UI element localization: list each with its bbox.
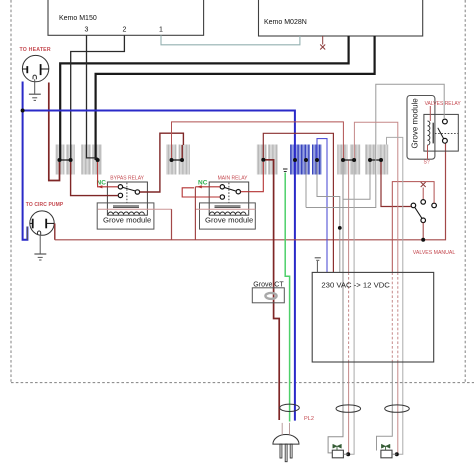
wire Kemo M028N out B (black) to terminal block TB2	[96, 36, 375, 160]
svg-text:Kemo M028N: Kemo M028N	[264, 19, 307, 26]
wire TB4 dot to Grove CT and plug (maroon)	[263, 160, 279, 420]
svg-text:Grove module: Grove module	[205, 215, 253, 224]
svg-text:1: 1	[159, 27, 163, 34]
bypass relay K1 box	[107, 182, 147, 215]
svg-text:NC: NC	[198, 180, 208, 187]
neutral blue wire: heater down, junction, across to blue terminal block	[23, 82, 295, 421]
thin blue link TB5 to 230VAC box	[317, 139, 327, 273]
main coil feed wire (pink)	[195, 208, 255, 210]
svg-text:TO CIRC PUMP: TO CIRC PUMP	[26, 202, 64, 208]
valves relay coil bottom wire + S? label	[424, 145, 430, 166]
gray wire TB5 to 230VAC box input 1	[305, 162, 307, 208]
svg-text:PL2: PL2	[304, 416, 314, 422]
wire TB6 junction to valve 1 solenoid (pink, dashed in PSU box)	[348, 161, 350, 455]
NC arrow main	[197, 185, 202, 188]
main relay K2 box	[209, 182, 249, 215]
svg-text:3: 3	[85, 27, 89, 34]
heater connector ground	[29, 79, 41, 100]
terminal block TB3	[166, 145, 190, 175]
valves relay contacts	[435, 119, 458, 143]
wire bypass coil to live bus	[171, 209, 173, 240]
wire TB2 dot to bypass relay NC contact	[98, 162, 118, 187]
valves grove module box (rounded)	[407, 96, 435, 160]
PSU ground	[315, 258, 321, 273]
wire TB1 right dot to bypass relay lower contact	[71, 162, 118, 196]
valves relay K3 box	[424, 114, 458, 151]
dashed enclosure border left	[10, 0, 12, 383]
Kemo M028N box	[259, 0, 423, 36]
wire valves manual right contact to valve 2 (red)	[377, 182, 435, 451]
wire Kemo M150 pin1 to Kemo M028N (teal)	[161, 35, 300, 45]
svg-text:Grove CT: Grove CT	[253, 281, 284, 288]
svg-text:VALVES RELAY: VALVES RELAY	[425, 101, 462, 107]
terminal block junction dots	[58, 158, 384, 162]
bypass grove module box	[97, 203, 154, 229]
230VAC-12VDC power supply box	[312, 272, 434, 362]
mains plug PL2	[273, 423, 299, 462]
wire TB4 dot to 230VAC box input (maroon)	[263, 133, 333, 272]
circ pump connector J2	[27, 211, 54, 240]
junction dot neutral	[21, 109, 25, 113]
wire bypass relay common to TB3 right	[140, 133, 184, 192]
green-yellow wire TB5 to plug	[283, 169, 290, 422]
NC arrow bypass	[97, 185, 102, 188]
gray wire TB5 to junction and box 2	[317, 162, 342, 272]
bypass relay coil	[108, 206, 144, 215]
dashed enclosure border right	[464, 0, 466, 383]
wire Kemo M150 pin 2 to terminal block TB1	[71, 35, 125, 160]
valve 2 solenoid	[381, 444, 399, 458]
heater connector J1	[22, 55, 48, 81]
heater hot wire (dark red) down to U-link	[49, 83, 60, 181]
gray wire TB7 left L-link	[343, 162, 370, 199]
svg-text:230 VAC -> 12 VDC: 230 VAC -> 12 VDC	[321, 280, 390, 289]
wire valves manual common to live bus	[421, 223, 425, 242]
wire TB7 right dot to valves manual left contact (maroon)	[381, 162, 411, 207]
gray wire TB6 right down to valve 1 dot	[350, 162, 354, 454]
wire TB3 left to TB6 left (red)	[172, 122, 344, 158]
svg-text:VALVES MANUAL: VALVES MANUAL	[413, 250, 456, 256]
svg-text:TO HEATER: TO HEATER	[20, 47, 51, 53]
svg-text:BYPAS RELAY: BYPAS RELAY	[110, 176, 144, 182]
cable ellipse valve 2	[385, 405, 410, 412]
svg-text:S?: S?	[424, 160, 430, 166]
red X above valves manual	[421, 182, 426, 200]
wire main relay lower contact loop	[182, 188, 220, 197]
gray wire valves relay top contact to TB7 gap	[306, 84, 444, 207]
terminal block TB7	[365, 145, 388, 175]
main relay contacts	[220, 183, 240, 203]
bypass coil feed wire (pink)	[98, 208, 172, 210]
gray wire TB6 left down to valve 1	[328, 162, 343, 453]
terminal block TB1	[56, 145, 75, 175]
svg-text:MAIN RELAY: MAIN RELAY	[218, 176, 249, 182]
unconnected pin X under Kemo M028N	[320, 36, 325, 50]
terminal block TB2	[81, 145, 102, 175]
wire Kemo M028N out A (black) to terminal block TB1	[60, 36, 348, 160]
main grove module box	[200, 203, 256, 229]
230V live bus wire (red) pump to valves relay	[55, 144, 446, 240]
terminal block TB4	[257, 145, 278, 175]
Grove CT box	[252, 281, 284, 303]
svg-text:2: 2	[123, 27, 127, 34]
valves relay coil (vertical)	[428, 121, 434, 145]
dashed enclosure border bottom	[11, 382, 474, 384]
main relay coil	[210, 206, 246, 215]
valve 1 solenoid	[332, 444, 350, 458]
svg-text:Kemo M150: Kemo M150	[59, 15, 97, 22]
bypass relay contacts	[118, 183, 139, 203]
Kemo M150 box	[48, 0, 204, 35]
svg-text:Grove module: Grove module	[411, 98, 420, 149]
gray wire TB7 stub to valve 2 right	[387, 137, 403, 454]
valves relay coil top wire (red)	[429, 106, 431, 121]
wire main NC contact to live bus	[195, 187, 220, 240]
valves manual switch contacts	[411, 200, 436, 223]
wire Kemo M150 pin 3 to terminal block TB2	[87, 35, 98, 158]
cable ellipse valve 1	[336, 405, 361, 412]
terminal block TB5 (blue)	[290, 145, 322, 175]
svg-text:Grove module: Grove module	[103, 215, 151, 224]
cable ellipse PL2 bundle	[280, 404, 300, 411]
terminal block TB6	[337, 145, 360, 175]
circ pump ground	[34, 235, 46, 260]
wire main relay common to TB4	[241, 162, 264, 192]
wire TB6 right up-over to valve 2 solenoid (pink, dashed in PSU box)	[354, 122, 397, 454]
